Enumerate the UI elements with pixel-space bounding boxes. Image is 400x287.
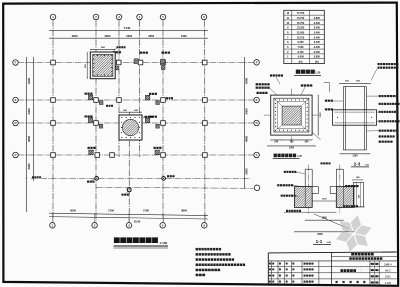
drawing title cell [341, 269, 344, 272]
label JGZ row D a [85, 115, 87, 117]
tb right label a [371, 282, 374, 284]
D3 note r1 [345, 185, 347, 187]
detail D1 corner ties [274, 98, 282, 106]
D2 note l2 [325, 108, 327, 110]
bottom dimension line [49, 213, 208, 215]
D3 note l1 [284, 171, 286, 173]
label JGZ row E c [106, 105, 108, 107]
tb cell blob [269, 281, 271, 283]
tb cell blob [269, 268, 271, 270]
row D mini columns [88, 118, 92, 123]
svg-text:4300: 4300 [72, 34, 78, 38]
D1 note d [301, 84, 303, 86]
tb cell mid [304, 268, 306, 270]
D2 note r [379, 141, 381, 143]
tb cell blob [279, 268, 281, 270]
label JGZ row D b [149, 116, 151, 118]
note line [196, 253, 198, 256]
top grid bubbles [50, 14, 56, 20]
sig blob [336, 281, 338, 283]
svg-text:1:100: 1:100 [160, 241, 168, 245]
note line [196, 274, 199, 277]
svg-text:3.400: 3.400 [314, 41, 321, 44]
right dimension line [244, 57, 246, 188]
plan grid row lines [18, 62, 254, 64]
detail D1 centrelines [264, 114, 319, 116]
svg-text:2400: 2400 [245, 108, 249, 114]
svg-text:3.800: 3.800 [314, 56, 321, 59]
top dimension line 1 (overall) [49, 30, 208, 32]
detail D1 inner square with rebar [274, 98, 309, 132]
row F right bubble [254, 185, 260, 191]
detail D3 stub flanges [312, 187, 318, 194]
detail D1 hatched core [282, 106, 301, 125]
label AZ-1 a [87, 181, 89, 183]
label JGZ row E d [166, 97, 168, 99]
sig blob [343, 281, 345, 283]
top dimension line 2 (bays) [49, 37, 208, 39]
tb cell blob [272, 281, 274, 283]
svg-text:77.750: 77.750 [297, 12, 305, 15]
tb right label a [371, 263, 374, 265]
label KZ-1 [117, 46, 119, 48]
AZ-1 circle column b [162, 177, 166, 181]
title D3 [274, 154, 277, 158]
row C mini columns [89, 150, 93, 155]
D2 note r [379, 95, 381, 97]
note line [196, 248, 198, 251]
D2 note r [379, 103, 381, 105]
plan grid column lines [52, 20, 54, 222]
svg-text:C: C [14, 153, 16, 157]
elbow leader right of caption [324, 82, 330, 84]
svg-text:1700: 1700 [143, 209, 149, 213]
grid row E (az line) [31, 177, 250, 179]
svg-text:12.050: 12.050 [297, 31, 305, 34]
svg-text:2-3: 2-3 [354, 161, 361, 166]
project name [349, 257, 352, 260]
tb right label b [375, 263, 378, 265]
detail D1 break line [313, 133, 321, 140]
svg-text:1-1: 1-1 [316, 239, 323, 244]
tb cell blob [279, 263, 281, 265]
detail D2 bottom dim [340, 153, 371, 155]
tb cell blob [286, 263, 288, 265]
D2 note r [379, 120, 381, 122]
row E mini columns [88, 95, 92, 100]
svg-text:3.400: 3.400 [314, 27, 321, 30]
svg-text:7140: 7140 [124, 26, 131, 30]
AZ-1 circle column a [95, 177, 99, 181]
sig blob [350, 281, 352, 283]
detail D1 bottom dims [271, 139, 312, 141]
svg-text:Ab-2: Ab-2 [385, 269, 391, 273]
svg-text:2001: 2001 [385, 275, 391, 279]
detail D3 diagonal leader [314, 214, 349, 229]
tb cell blob [272, 263, 274, 265]
svg-text:JMB-4: JMB-4 [384, 262, 392, 266]
svg-text:1:25: 1:25 [315, 72, 321, 75]
svg-text:5000: 5000 [245, 168, 249, 174]
detail D3 ground line [284, 211, 336, 213]
svg-text:3.750: 3.750 [297, 51, 304, 54]
svg-text:3.450: 3.450 [314, 51, 321, 54]
title block right headers [331, 255, 396, 257]
detail D2 top leader [371, 69, 377, 81]
row F mini columns [109, 59, 113, 64]
svg-text:F: F [256, 60, 258, 64]
label row C a [88, 147, 90, 149]
svg-text:C: C [256, 153, 258, 157]
svg-text:2350: 2350 [148, 34, 154, 38]
svg-text:2.800: 2.800 [314, 17, 321, 20]
label AZ-1 b [167, 175, 169, 177]
svg-text:3.400: 3.400 [314, 31, 321, 34]
label JGZ row E a [85, 93, 87, 95]
note line [196, 269, 199, 272]
tb cell blob [286, 268, 288, 270]
label KZ-2 [145, 116, 147, 118]
D1 note e [257, 92, 259, 94]
title block left columns [270, 261, 272, 285]
svg-text:1100: 1100 [322, 198, 328, 200]
svg-text:D: D [14, 121, 16, 125]
D3 note l4 [286, 210, 288, 212]
tb right label a [371, 275, 374, 277]
bottom bubble stems [52, 214, 54, 222]
svg-text:15.750: 15.750 [297, 22, 305, 25]
label AZ-2 [122, 194, 124, 196]
D2 note r [379, 111, 381, 113]
svg-text:3.400: 3.400 [314, 46, 321, 49]
svg-text:2400: 2400 [27, 108, 31, 114]
svg-text:10.750: 10.750 [297, 36, 305, 39]
svg-text:2300: 2300 [105, 34, 111, 38]
svg-text:D: D [256, 121, 258, 125]
svg-text:1:25: 1:25 [365, 165, 370, 167]
svg-text:1200: 1200 [320, 112, 322, 118]
title block outer [268, 251, 396, 254]
tb cell blob [272, 275, 274, 277]
tb cell blob [292, 268, 294, 270]
D3 note l2 [277, 184, 279, 186]
design institute name [351, 253, 354, 256]
D2 note t1 [378, 63, 380, 65]
grid row F [96, 186, 254, 189]
detail D3 mid dim [312, 200, 336, 202]
tb cell mid [304, 263, 306, 265]
svg-text:1:100: 1:100 [385, 281, 392, 285]
D3 note l3 [281, 195, 283, 197]
detail D4 base ticks [352, 206, 365, 208]
svg-text:(m): (m) [299, 61, 303, 64]
sig blob [363, 281, 365, 283]
svg-text:E: E [15, 98, 17, 102]
svg-text:(m): (m) [315, 61, 319, 64]
left dimension lines [25, 57, 27, 212]
svg-text:5400: 5400 [27, 78, 31, 84]
svg-text:13.350: 13.350 [297, 27, 305, 30]
big column KZ-2 plan (centre) [119, 115, 142, 140]
D2 note r [379, 135, 381, 137]
detail D3 bottom dims [305, 219, 343, 221]
detail D2 upper column [343, 86, 366, 88]
detail D3 centrelines [308, 165, 310, 214]
D1 note b [256, 87, 258, 89]
svg-text:1200: 1200 [289, 148, 295, 150]
svg-text:4800: 4800 [27, 136, 31, 142]
svg-text:1700: 1700 [108, 209, 114, 213]
svg-text:9.450: 9.450 [297, 41, 304, 44]
tb right label b [375, 269, 378, 271]
label row C b [154, 147, 156, 149]
level note [32, 176, 34, 178]
tb right label a [371, 269, 374, 271]
detail D2 top dim [340, 83, 371, 85]
caption ceng-gao-biao [296, 70, 300, 74]
svg-text:5000: 5000 [70, 209, 76, 213]
tb cell blob [279, 275, 281, 277]
label JGZ-1 top row a [113, 51, 115, 53]
tb cell blob [269, 263, 271, 265]
svg-text:2050: 2050 [126, 34, 132, 38]
svg-text:3.400: 3.400 [314, 36, 321, 39]
detail D2 collar flange [333, 110, 377, 125]
D1 note a [256, 83, 258, 85]
tb cell blob [286, 281, 288, 283]
storey height table [284, 10, 325, 63]
left row bubbles [13, 60, 19, 66]
watermark pinwheel logo [334, 214, 373, 253]
svg-text:1:25: 1:25 [327, 242, 332, 244]
svg-text:3.400: 3.400 [314, 22, 321, 25]
sig blob [357, 281, 359, 283]
tb cell blob [269, 275, 271, 277]
detail D4 body [353, 182, 363, 207]
D2 note r [379, 130, 381, 132]
tb cell mid [304, 275, 306, 277]
svg-text:21140: 21140 [134, 220, 141, 223]
tb cell blob [292, 281, 294, 283]
svg-text:1100: 1100 [352, 155, 358, 158]
tb cell blob [292, 263, 294, 265]
note line [196, 264, 198, 267]
svg-text:3800: 3800 [181, 209, 187, 213]
detail D4 top dim [352, 179, 363, 181]
D3 note t [321, 162, 323, 164]
KZ-1 dims above [86, 52, 88, 79]
label JGZ-1 top row b [140, 52, 142, 54]
D1 note c [270, 74, 272, 76]
svg-text:70.150: 70.150 [297, 17, 305, 20]
big column KZ-1 plan (top) [90, 52, 115, 79]
detail D3 base blocks [295, 187, 313, 208]
svg-text:4800: 4800 [245, 136, 249, 142]
svg-text:5400: 5400 [245, 78, 249, 84]
svg-text:1:25: 1:25 [297, 156, 302, 158]
tb right label b [375, 282, 378, 284]
svg-text:-0.050: -0.050 [297, 56, 305, 59]
detail D3 posts [305, 168, 312, 170]
tb cell blob [292, 275, 294, 277]
AZ-2 circle column [127, 188, 131, 192]
note line [196, 258, 198, 261]
D3 note r2 [344, 205, 346, 207]
right row bubbles [254, 60, 260, 66]
detail D1 right dim [317, 95, 319, 135]
tb cell blob [279, 281, 281, 283]
title block right columns [369, 261, 371, 285]
column squares [51, 60, 56, 65]
plan title blobs [114, 237, 120, 243]
title block rows [268, 266, 397, 268]
svg-text:7.050: 7.050 [297, 46, 304, 49]
bottom grid bubbles [50, 223, 56, 229]
svg-text:F: F [15, 61, 17, 65]
detail D2 lower column [342, 125, 344, 150]
D2 note t2 [378, 67, 380, 69]
tb right label b [375, 275, 378, 277]
tb cell blob [286, 275, 288, 277]
svg-text:3400: 3400 [27, 163, 31, 169]
svg-text:E: E [256, 98, 258, 102]
svg-text:4100: 4100 [181, 34, 187, 38]
tb cell mid [304, 281, 306, 283]
KZ-2 dims above [119, 111, 142, 113]
tb cell blob [272, 268, 274, 270]
label JGZ row E b [149, 93, 151, 95]
D2 note l1 [325, 100, 327, 102]
svg-text:2060: 2060 [317, 233, 323, 236]
label JGZ-1 top row c [162, 52, 164, 54]
detail D1 outer square [271, 95, 312, 135]
detail D1 stirrup rect [277, 101, 306, 128]
